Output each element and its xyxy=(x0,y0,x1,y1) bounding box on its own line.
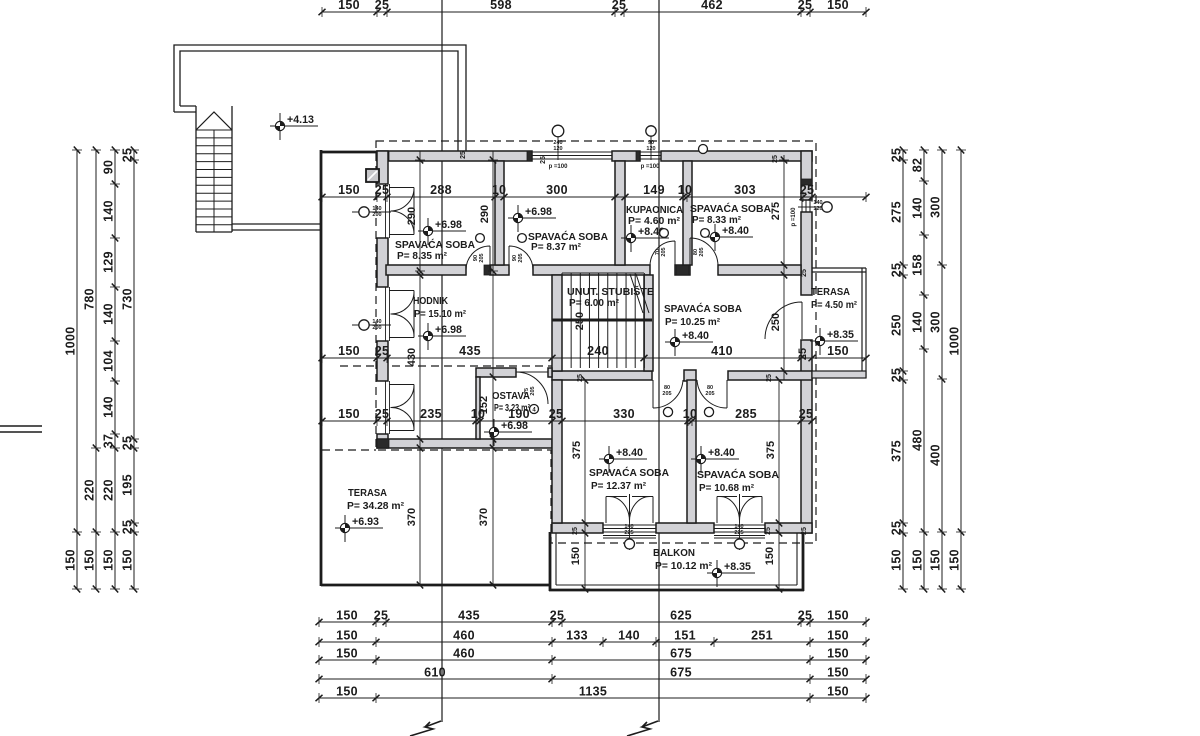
window W1 p=100 in north wall xyxy=(532,151,612,161)
chimney flue at west wall xyxy=(366,169,379,182)
door bedroom 8.37 (to hall) xyxy=(509,246,533,270)
elevation +6.98 bedroom 8.37 xyxy=(508,205,556,232)
french door hodnik upper to terrace (west wall) xyxy=(389,291,414,338)
window in east wall (bedroom 8.33) xyxy=(802,200,810,212)
svg-text:150: 150 xyxy=(64,549,78,571)
kupaonica left wall xyxy=(615,161,625,265)
svg-text:250: 250 xyxy=(770,313,782,331)
svg-text:P= 34.28 m²: P= 34.28 m² xyxy=(347,501,405,512)
svg-text:90: 90 xyxy=(102,160,116,175)
svg-text:462: 462 xyxy=(701,0,723,12)
svg-text:25: 25 xyxy=(801,527,808,535)
svg-text:225: 225 xyxy=(734,530,743,536)
svg-text:150: 150 xyxy=(336,685,358,699)
west door frame lines hodnik xyxy=(385,381,387,434)
svg-text:150: 150 xyxy=(338,0,360,12)
svg-text:205: 205 xyxy=(479,253,485,262)
svg-text:300: 300 xyxy=(929,196,943,218)
svg-text:303: 303 xyxy=(734,183,756,197)
svg-text:25: 25 xyxy=(772,155,779,163)
svg-text:25: 25 xyxy=(798,0,813,12)
terasa 4.50 south band xyxy=(812,371,866,378)
svg-text:25: 25 xyxy=(890,521,904,536)
svg-text:HODNIK: HODNIK xyxy=(413,296,449,307)
svg-text:150: 150 xyxy=(336,647,358,661)
french door hodnik to terrace (west wall) xyxy=(389,385,414,431)
interior staircase treads xyxy=(562,273,644,368)
svg-text:430: 430 xyxy=(406,348,418,366)
staircase break line xyxy=(630,274,649,313)
svg-text:25: 25 xyxy=(550,609,565,623)
svg-text:370: 370 xyxy=(406,508,418,526)
svg-text:+8.35: +8.35 xyxy=(724,561,751,573)
svg-text:25: 25 xyxy=(375,183,390,197)
interior vertical dim x420 xyxy=(406,151,425,589)
door bedroom 12.37 (from hall) xyxy=(653,380,683,408)
svg-text:129: 129 xyxy=(102,251,116,273)
door circle bedroom 8.37 xyxy=(518,234,527,243)
exterior wall: right (east) xyxy=(801,151,812,200)
svg-text:+6.98: +6.98 xyxy=(525,206,552,218)
svg-text:82: 82 xyxy=(911,158,925,173)
kupaonica right wall xyxy=(683,161,692,265)
svg-text:25: 25 xyxy=(549,407,564,421)
west door frame lines hodnik upper xyxy=(385,287,387,341)
svg-text:SPAVAĆA SOBA: SPAVAĆA SOBA xyxy=(664,302,742,315)
svg-text:P= 10.68 m²: P= 10.68 m² xyxy=(699,483,755,494)
exterior stairs flight xyxy=(196,106,232,232)
left dim col 4 xyxy=(121,147,140,593)
elevation +8.40 bedroom 12.37 xyxy=(599,446,647,473)
svg-text:P= 15.10 m²: P= 15.10 m² xyxy=(414,309,467,320)
svg-text:25: 25 xyxy=(577,374,584,382)
svg-text:480: 480 xyxy=(911,429,925,451)
elevation +6.98 hodnik xyxy=(418,323,466,350)
svg-text:p =100: p =100 xyxy=(791,207,797,227)
svg-text:370: 370 xyxy=(478,508,490,526)
west door frame lines bedroom 8.35 xyxy=(385,184,387,238)
svg-text:P= 3.23 m²: P= 3.23 m² xyxy=(494,403,530,414)
svg-text:150: 150 xyxy=(948,549,962,571)
window W2 p=100 in north wall xyxy=(640,151,661,161)
svg-text:25: 25 xyxy=(766,374,773,382)
svg-text:730: 730 xyxy=(121,288,135,310)
door bedroom 10.25 to terasa (east wall) xyxy=(765,302,802,339)
svg-text:251: 251 xyxy=(751,629,773,643)
svg-text:205: 205 xyxy=(705,391,714,397)
svg-text:149: 149 xyxy=(643,183,665,197)
svg-text:200: 200 xyxy=(372,212,381,218)
interior vertical dim x779 lower xyxy=(764,377,784,593)
elevation +6.98 ostava xyxy=(484,419,532,446)
elevation +8.40 bedroom 8.33 xyxy=(705,224,753,251)
svg-text:152: 152 xyxy=(478,396,490,414)
door circle bedroom 8.33 xyxy=(701,229,710,238)
interior vertical dim x585 lower xyxy=(570,377,590,593)
svg-text:P= 6.00 m²: P= 6.00 m² xyxy=(569,298,620,309)
french balcony door bedroom 12.37 xyxy=(606,494,653,523)
exterior wall: left (west) xyxy=(377,151,388,184)
elevation +8.40 kupaonica xyxy=(621,225,669,252)
window marker west wall bedroom 8.35 xyxy=(352,206,391,218)
svg-text:225: 225 xyxy=(624,530,633,536)
svg-text:25: 25 xyxy=(374,609,389,623)
svg-text:150: 150 xyxy=(827,647,849,661)
svg-text:25: 25 xyxy=(121,148,135,163)
roof terrace step to stairs xyxy=(174,106,196,112)
interior wall between bedrooms and hall (y=265) xyxy=(386,265,466,275)
north wall corner caps xyxy=(377,151,389,161)
svg-text:25: 25 xyxy=(890,148,904,163)
door bedroom 8.35 (to hall) xyxy=(466,246,490,270)
terasa 4.50 outline xyxy=(812,268,866,378)
elevation marker +4.13 roof terrace xyxy=(270,113,318,140)
svg-text:140: 140 xyxy=(102,303,116,325)
svg-text:150: 150 xyxy=(764,547,776,565)
svg-text:150: 150 xyxy=(336,629,358,643)
svg-text:625: 625 xyxy=(670,609,692,623)
terrace TERASA 34.28 left edge xyxy=(320,150,323,586)
svg-text:205: 205 xyxy=(699,247,705,256)
svg-text:460: 460 xyxy=(453,647,475,661)
elevation +6.93 terasa 34.28 xyxy=(335,515,383,542)
svg-text:104: 104 xyxy=(102,350,116,372)
left wall of bedroom 12.37 xyxy=(552,380,562,523)
stairs top arrow xyxy=(196,112,232,130)
terrace bottom edge xyxy=(321,584,550,587)
svg-text:25: 25 xyxy=(801,269,808,277)
stair left wall xyxy=(552,275,562,371)
svg-text:1000: 1000 xyxy=(64,326,78,355)
svg-text:235: 235 xyxy=(420,407,442,421)
svg-text:205: 205 xyxy=(518,253,524,262)
svg-text:25: 25 xyxy=(798,609,813,623)
svg-text:250: 250 xyxy=(574,312,586,330)
left dim col 2 xyxy=(83,147,102,593)
balcony bottom edge xyxy=(549,589,804,592)
wall between bedroom 8.35 and 8.37 xyxy=(495,161,504,265)
dashed segment on terrace y450 xyxy=(322,449,376,451)
svg-text:150: 150 xyxy=(827,666,849,680)
door bedroom 10.68 (from hall) xyxy=(697,380,727,408)
roof terrace outline outer xyxy=(174,45,466,151)
top dimension row xyxy=(319,0,870,17)
door circle bedroom 8.35 xyxy=(476,234,485,243)
bottom dimension row 1 xyxy=(316,609,870,628)
terrace top edge xyxy=(320,151,378,154)
exterior wall: top (north) xyxy=(377,151,532,161)
svg-text:+8.40: +8.40 xyxy=(682,330,709,342)
svg-text:+8.40: +8.40 xyxy=(616,447,643,459)
svg-text:+8.40: +8.40 xyxy=(722,225,749,237)
svg-text:P= 10.25 m²: P= 10.25 m² xyxy=(665,317,721,328)
svg-text:25: 25 xyxy=(890,263,904,278)
svg-text:150: 150 xyxy=(570,547,582,565)
svg-text:133: 133 xyxy=(566,629,588,643)
svg-text:375: 375 xyxy=(765,441,777,459)
roof terrace outline inner xyxy=(180,51,458,151)
scan artifact lines at left edge xyxy=(0,425,42,427)
svg-text:UNUT. STUBIŠTE: UNUT. STUBIŠTE xyxy=(567,285,654,298)
svg-text:140: 140 xyxy=(911,197,925,219)
svg-text:410: 410 xyxy=(711,344,733,358)
door ostava xyxy=(516,372,548,404)
left dim col 1 xyxy=(64,147,83,593)
elevation +8.40 bedroom 10.68 xyxy=(691,446,739,473)
svg-text:150: 150 xyxy=(827,685,849,699)
balcony inner parapet lines xyxy=(555,533,557,585)
svg-text:25: 25 xyxy=(612,0,627,12)
svg-text:150: 150 xyxy=(827,629,849,643)
svg-text:120: 120 xyxy=(813,206,822,212)
window marker east wall xyxy=(798,200,832,212)
window marker north wall W2 xyxy=(646,125,656,160)
svg-text:+6.98: +6.98 xyxy=(435,324,462,336)
interior vertical dim x784 xyxy=(770,155,789,380)
svg-text:610: 610 xyxy=(424,666,446,680)
pier between lower bedroom doors xyxy=(684,370,696,381)
bottom dimension row 4 xyxy=(316,666,870,685)
svg-text:288: 288 xyxy=(430,183,452,197)
svg-text:25: 25 xyxy=(890,368,904,383)
svg-text:120: 120 xyxy=(646,146,655,152)
ostava top wall xyxy=(476,368,516,377)
svg-text:+6.93: +6.93 xyxy=(352,516,379,528)
svg-text:SPAVAĆA SOBA: SPAVAĆA SOBA xyxy=(589,466,669,479)
window marker west wall hodnik xyxy=(352,319,391,331)
svg-text:37: 37 xyxy=(102,434,116,449)
balcony window under bedroom 10.68 door xyxy=(714,525,765,538)
svg-text:+8.40: +8.40 xyxy=(708,447,735,459)
bottom dimension row 2 xyxy=(316,629,870,648)
svg-text:SPAVAĆA SOBA: SPAVAĆA SOBA xyxy=(697,468,779,481)
balcony left edge xyxy=(549,532,552,591)
svg-text:140: 140 xyxy=(618,629,640,643)
svg-text:675: 675 xyxy=(670,666,692,680)
svg-text:375: 375 xyxy=(571,441,583,459)
svg-text:275: 275 xyxy=(770,202,782,220)
section mark axis 1 xyxy=(410,721,441,736)
svg-text:150: 150 xyxy=(890,549,904,571)
svg-text:290: 290 xyxy=(479,205,491,223)
dashed line above ostava wall xyxy=(340,365,552,367)
svg-text:25: 25 xyxy=(540,156,547,164)
svg-text:275: 275 xyxy=(890,201,904,223)
svg-text:25: 25 xyxy=(375,344,390,358)
svg-text:25: 25 xyxy=(121,436,135,451)
svg-text:TERASA: TERASA xyxy=(811,287,850,298)
svg-text:205: 205 xyxy=(662,391,671,397)
svg-text:290: 290 xyxy=(406,207,418,225)
svg-text:p =100: p =100 xyxy=(641,164,661,170)
svg-text:25: 25 xyxy=(797,348,809,360)
svg-text:120: 120 xyxy=(553,146,562,152)
window marker north wall W1 xyxy=(552,125,564,160)
svg-text:151: 151 xyxy=(674,629,696,643)
dashed centerline in lower wing wall xyxy=(556,374,648,376)
roof terrace bottom edge double line xyxy=(232,224,320,230)
svg-text:300: 300 xyxy=(929,311,943,333)
svg-text:1135: 1135 xyxy=(579,685,607,699)
svg-text:220: 220 xyxy=(83,479,97,501)
svg-text:+6.98: +6.98 xyxy=(435,219,462,231)
staircase mid landing line xyxy=(552,319,652,322)
svg-text:285: 285 xyxy=(735,407,757,421)
axis grid line 1 xyxy=(441,0,443,722)
door bedroom 8.33 xyxy=(690,238,718,266)
svg-text:150: 150 xyxy=(827,0,849,12)
ostava left wall xyxy=(476,377,480,439)
french door bedroom 8.35 to terrace (west wall) xyxy=(389,188,414,235)
svg-text:150: 150 xyxy=(338,344,360,358)
svg-text:250: 250 xyxy=(890,314,904,336)
svg-text:25: 25 xyxy=(799,407,814,421)
svg-text:10: 10 xyxy=(683,407,698,421)
door circle kupaonica xyxy=(660,229,669,238)
svg-text:TERASA: TERASA xyxy=(348,488,387,499)
svg-text:P= 10.12 m²: P= 10.12 m² xyxy=(655,561,713,572)
svg-text:140: 140 xyxy=(102,396,116,418)
svg-text:195: 195 xyxy=(121,474,135,496)
door jamb caps on mid wall xyxy=(484,265,491,275)
french balcony door bedroom 10.68 xyxy=(717,494,762,523)
right dim col 2 xyxy=(911,147,930,593)
svg-text:P= 8.35 m²: P= 8.35 m² xyxy=(397,251,448,262)
right dim col 1 xyxy=(890,147,909,593)
door kupaonica xyxy=(650,241,675,266)
svg-text:300: 300 xyxy=(546,183,568,197)
elevation +8.35 balkon xyxy=(707,560,755,587)
balcony right edge xyxy=(802,532,805,591)
svg-text:140: 140 xyxy=(102,200,116,222)
svg-text:1000: 1000 xyxy=(948,326,962,355)
svg-text:+4.13: +4.13 xyxy=(287,114,314,126)
left dim col 3 xyxy=(102,147,121,593)
ostava symbol circle xyxy=(530,405,539,414)
svg-text:200: 200 xyxy=(372,325,381,331)
elevation +8.40 bedroom 10.25 xyxy=(665,329,713,356)
section mark axis 2 xyxy=(627,721,658,736)
svg-text:598: 598 xyxy=(490,0,512,12)
small circle near axis2 window xyxy=(699,145,708,154)
svg-text:25: 25 xyxy=(375,407,390,421)
svg-text:150: 150 xyxy=(121,549,135,571)
svg-text:SPAVAĆA SOBA: SPAVAĆA SOBA xyxy=(395,238,475,251)
svg-text:150: 150 xyxy=(929,549,943,571)
svg-text:435: 435 xyxy=(458,609,480,623)
interior dim row y420 xyxy=(319,407,816,426)
svg-text:150: 150 xyxy=(83,549,97,571)
interior dim row y196 xyxy=(319,183,870,202)
svg-text:140: 140 xyxy=(911,311,925,333)
svg-text:25: 25 xyxy=(375,0,390,12)
svg-text:150: 150 xyxy=(911,549,925,571)
dashed envelope outline xyxy=(376,141,816,543)
svg-text:P= 8.37 m²: P= 8.37 m² xyxy=(531,242,582,253)
svg-text:SPAVAĆA SOBA: SPAVAĆA SOBA xyxy=(690,202,771,215)
svg-text:435: 435 xyxy=(459,344,481,358)
balcony window marker right xyxy=(734,523,744,550)
svg-text:KUPAONICA: KUPAONICA xyxy=(626,205,683,216)
svg-text:150: 150 xyxy=(338,183,360,197)
door circle bedroom 12.37 xyxy=(663,407,672,416)
svg-text:25: 25 xyxy=(460,151,467,159)
svg-text:220: 220 xyxy=(102,479,116,501)
bottom dimension row 5 xyxy=(316,685,870,704)
svg-text:780: 780 xyxy=(83,288,97,310)
elevation +8.35 terasa 4.50 xyxy=(810,328,858,355)
svg-text:p =100: p =100 xyxy=(549,164,569,170)
south wall of hodnik wing xyxy=(377,439,552,448)
svg-text:10: 10 xyxy=(492,183,507,197)
svg-text:330: 330 xyxy=(613,407,635,421)
axis grid line 2 xyxy=(658,0,660,722)
svg-text:25: 25 xyxy=(765,527,772,535)
svg-text:150: 150 xyxy=(338,407,360,421)
svg-text:150: 150 xyxy=(336,609,358,623)
interior dim row y357 xyxy=(319,344,870,363)
svg-text:BALKON: BALKON xyxy=(653,548,695,559)
balcony window marker left xyxy=(624,523,634,550)
right dim col 3 xyxy=(929,147,948,593)
east wall SE corner cap xyxy=(801,523,812,533)
svg-text:375: 375 xyxy=(890,440,904,462)
svg-text:P= 12.37 m²: P= 12.37 m² xyxy=(591,481,647,492)
bottom dimension row 3 xyxy=(316,647,870,666)
svg-text:158: 158 xyxy=(911,254,925,276)
svg-text:25: 25 xyxy=(800,183,815,197)
wall between bedrooms 12.37 and 10.68 xyxy=(687,380,696,523)
svg-text:150: 150 xyxy=(827,344,849,358)
svg-text:675: 675 xyxy=(670,647,692,661)
svg-text:205: 205 xyxy=(530,386,536,395)
svg-text:P= 4.50 m²: P= 4.50 m² xyxy=(811,300,858,311)
door circle bedroom 10.68 xyxy=(704,407,713,416)
svg-text:+8.35: +8.35 xyxy=(827,329,854,341)
svg-text:240: 240 xyxy=(587,344,609,358)
svg-text:25: 25 xyxy=(121,520,135,535)
svg-text:10: 10 xyxy=(678,183,693,197)
svg-text:205: 205 xyxy=(661,247,667,256)
svg-text:150: 150 xyxy=(827,609,849,623)
interior wall y=371 between hall zone and lower bedrooms xyxy=(552,371,652,380)
elevation +6.98 bedroom 8.35 xyxy=(418,218,466,245)
svg-text:460: 460 xyxy=(453,629,475,643)
svg-text:25: 25 xyxy=(572,527,579,535)
stair right wall xyxy=(644,275,653,371)
svg-text:150: 150 xyxy=(102,549,116,571)
balcony window under bedroom 12.37 door xyxy=(603,525,656,538)
svg-text:400: 400 xyxy=(929,444,943,466)
interior vertical dim x493 xyxy=(478,151,498,589)
south wall of lower bedrooms xyxy=(552,523,603,533)
right dim col 4 xyxy=(948,147,967,593)
east wall cap above window xyxy=(801,179,812,185)
svg-text:+6.98: +6.98 xyxy=(501,420,528,432)
